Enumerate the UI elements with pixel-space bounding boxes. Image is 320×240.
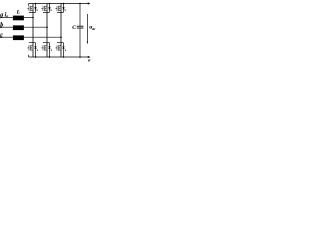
transistor T4 (MOSFET) (28, 43, 36, 51)
diode D5 (bottom leg2) (48, 43, 53, 58)
current arrow phase a (0, 16, 3, 18)
inductor L (phase a) (13, 16, 24, 21)
svg-text:a: a (6, 15, 8, 19)
svg-text:s: s (50, 8, 53, 12)
node cap bottom junction (79, 56, 81, 58)
transistor T5 (MOSFET) (42, 43, 50, 51)
svg-text:C: C (72, 25, 76, 31)
leg 2 vertical wire (46, 4, 48, 58)
svg-text:s: s (36, 48, 39, 52)
svg-text:s: s (36, 8, 39, 12)
transistor T1 (MOSFET) (28, 6, 36, 13)
capacitor C plates (77, 25, 84, 27)
wire top rail left corner stub (28, 4, 30, 6)
node cap top junction (79, 3, 81, 5)
svg-text:s: s (64, 48, 67, 52)
transistor T2 (MOSFET) (42, 6, 50, 13)
svg-text:n: n (88, 57, 91, 62)
transistor T6 (MOSFET) (56, 43, 64, 51)
current label i_a (5, 12, 9, 18)
voltage arrow u_dc (86, 14, 88, 42)
node phase a junction (32, 17, 34, 19)
inductor (phase c) (13, 35, 24, 40)
svg-text:s: s (64, 8, 67, 12)
capacitor C branch wire bottom (79, 28, 81, 57)
wire top DC rail (29, 3, 88, 5)
wire phase a left (0, 16, 13, 18)
terminal arrow bottom right (88, 56, 91, 58)
node a label (0, 12, 3, 18)
wire phase b left (0, 26, 13, 28)
current arrow phase c (0, 36, 3, 38)
leg 3 vertical wire (60, 4, 62, 58)
node b label (0, 22, 3, 28)
wire phase b right (24, 26, 47, 28)
voltage label u_dc (89, 25, 96, 32)
diode D2 (top leg2) (48, 3, 52, 13)
diode D1 (top leg1) (34, 3, 38, 13)
node phase b junction (46, 26, 48, 28)
current arrow phase b (0, 26, 3, 28)
diode D4 (bottom leg1) (34, 43, 39, 58)
node n label (88, 57, 91, 62)
svg-text:s: s (50, 48, 53, 52)
diode D6 (bottom leg3) (62, 43, 67, 58)
inductor (phase b) (13, 25, 24, 30)
capacitor label C (72, 25, 76, 31)
inductor label L (16, 10, 21, 16)
wire phase a right (24, 16, 33, 18)
node phase c junction (60, 36, 62, 38)
diode D3 (top leg3) (62, 3, 66, 13)
wire bottom rail left corner stub (28, 55, 30, 57)
leg 1 vertical wire (32, 4, 34, 58)
wire bottom DC rail (29, 56, 88, 58)
capacitor C branch wire top (79, 4, 81, 27)
wire phase c right (24, 36, 61, 38)
node c label (0, 33, 3, 39)
wire phase c left (0, 36, 13, 38)
svg-text:dc: dc (92, 27, 96, 31)
svg-text:L: L (16, 10, 21, 16)
transistor T3 (MOSFET) (56, 6, 64, 13)
terminal arrow top right (88, 2, 91, 4)
